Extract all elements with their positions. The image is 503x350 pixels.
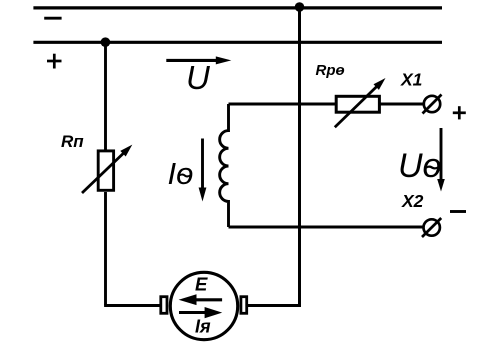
svg-text:U: U bbox=[186, 59, 210, 96]
wire: Rп down and right to left brush bbox=[104, 192, 160, 306]
label + (positive bus polarity) bbox=[47, 54, 62, 69]
arrow E direction (left) bbox=[179, 294, 223, 305]
terminal X1 bbox=[423, 95, 442, 114]
wire: positive supply bus bbox=[33, 41, 442, 44]
resistor Rpв (field regulating rheostat body) bbox=[336, 96, 379, 112]
label Rpв bbox=[316, 62, 345, 79]
svg-text:E: E bbox=[195, 274, 208, 295]
label X2 bbox=[401, 191, 424, 211]
brush (left) bbox=[161, 297, 167, 314]
arrow Iв field current (down) bbox=[199, 139, 207, 202]
svg-text:Rрѳ: Rрѳ bbox=[316, 62, 345, 79]
svg-text:Uѳ: Uѳ bbox=[398, 147, 441, 185]
armature machine circle bbox=[170, 272, 237, 339]
arrow Uв field voltage (down) bbox=[437, 128, 445, 192]
label Iя bbox=[195, 317, 211, 337]
label Rп bbox=[61, 132, 84, 151]
svg-text:Iѳ: Iѳ bbox=[168, 156, 194, 191]
resistor Rп (field rheostat body) bbox=[98, 151, 113, 190]
label U bbox=[186, 59, 210, 96]
label - (negative bus polarity) bbox=[44, 17, 61, 20]
label Iв bbox=[168, 156, 194, 191]
junction node on negative bus bbox=[295, 2, 305, 12]
rheostat arrow across Rп bbox=[82, 145, 132, 193]
field winding coil L bbox=[220, 104, 229, 227]
wire: field winding bottom (coil to X2 terminal) bbox=[229, 226, 424, 229]
label + (X1 polarity) bbox=[453, 106, 466, 119]
svg-text:X2: X2 bbox=[401, 191, 424, 211]
svg-text:Rп: Rп bbox=[61, 132, 84, 151]
arrow Iя armature current (right) bbox=[179, 307, 222, 318]
svg-text:X1: X1 bbox=[400, 70, 422, 90]
wire: negative supply bus bbox=[33, 6, 442, 9]
wire: negative bus down main vertical to right brush bbox=[247, 8, 301, 306]
junction node on positive bus bbox=[101, 37, 111, 47]
svg-text:Iя: Iя bbox=[195, 317, 211, 337]
terminal X2 bbox=[422, 218, 441, 237]
label E (emf) bbox=[195, 274, 208, 295]
wire: positive bus down to rheostat Rп bbox=[104, 42, 107, 152]
label X1 bbox=[400, 70, 422, 90]
arrow U (supply voltage) bbox=[166, 56, 231, 64]
rheostat arrow across Rpв bbox=[335, 78, 386, 127]
label Uв bbox=[398, 147, 441, 185]
brush (right) bbox=[241, 297, 247, 314]
label - (X2 polarity) bbox=[450, 210, 466, 213]
wire: field winding top (coil to X1 terminal) bbox=[229, 103, 424, 106]
